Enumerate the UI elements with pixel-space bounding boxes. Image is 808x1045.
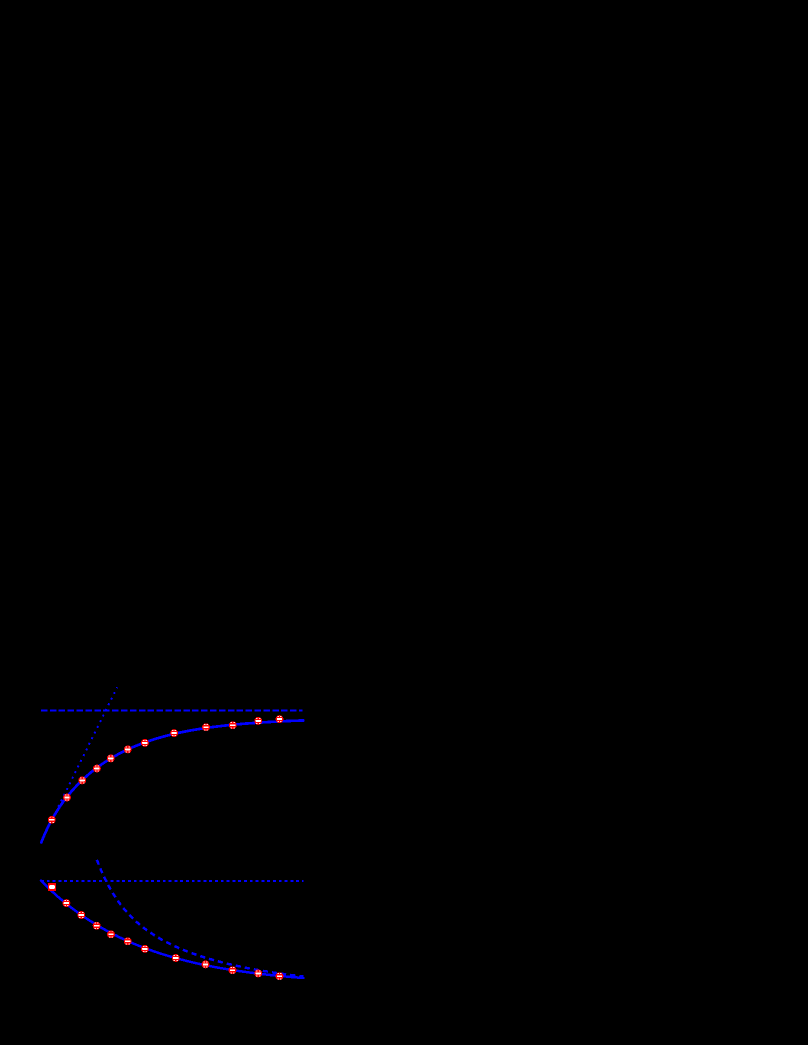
plot2 data point 12: [276, 972, 284, 980]
plot1 data point 9: [202, 723, 210, 731]
plot1 data point 3: [78, 776, 86, 784]
plot2 solid fit curve: [41, 881, 304, 978]
plot2 dashed approximation curve: [97, 860, 303, 977]
plot2 data point 3: [77, 911, 85, 919]
plot2 data point 1 (square marker): [48, 883, 56, 891]
plot2 data point 10: [229, 966, 237, 974]
plot1 dashed asymptote line: [41, 709, 302, 711]
plot2 data point 8: [172, 954, 180, 962]
plot1 data point 12: [276, 715, 284, 723]
plot1 data point 10: [229, 721, 237, 729]
plot1 data point 2: [63, 794, 71, 802]
plot2 data point 5: [107, 930, 115, 938]
plot1 solid fit curve: [41, 721, 303, 843]
plot1 data point 4: [93, 765, 101, 773]
plot2 data point 4: [93, 922, 101, 930]
plot1 data point 5: [107, 754, 115, 762]
plot2 data point 6: [124, 937, 132, 945]
plot1 data point 6: [124, 745, 132, 753]
plot2 data point 11: [254, 969, 262, 977]
plot2 data point 2: [62, 899, 70, 907]
plot1 data point 1: [48, 816, 56, 824]
plot1 data point 8: [170, 729, 178, 737]
plot2 dotted horizontal line: [41, 880, 304, 882]
plot1 data point 7: [141, 739, 149, 747]
plot2 data point 7: [141, 945, 149, 953]
plot1 data point 11: [254, 717, 262, 725]
plot2 data point 9: [202, 960, 210, 968]
plot1 dotted tangent line: [42, 687, 118, 840]
